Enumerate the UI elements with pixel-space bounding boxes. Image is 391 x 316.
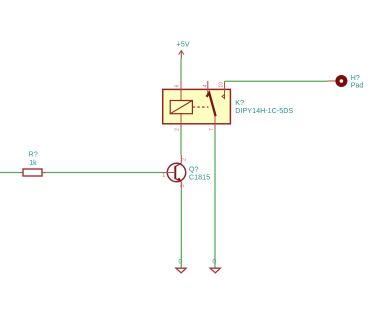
svg-text:0: 0 [212,258,216,265]
svg-text:7: 7 [209,128,215,131]
transistor Q? circle [167,163,185,181]
relay pin 4 [207,81,209,94]
svg-text:10: 10 [218,82,224,88]
wire relay pin2 to transistor collector [180,130,182,155]
relay pin 10 [224,81,226,99]
resistor R1 pin 1 stub [20,172,24,174]
power symbol +5V arrow [179,51,184,55]
wire transistor emitter to ground 1 [180,190,182,268]
relay pin 6 [180,80,182,100]
wire left from edge to resistor [0,172,20,174]
svg-text:0: 0 [178,258,182,265]
transistor emitter diagonal [176,179,182,182]
pad H? pin stub [328,80,337,82]
resistor R1 pin 2 stub [42,172,46,174]
wire relay pin7 to ground 2 [214,130,216,268]
relay pin 7 [214,116,216,130]
svg-text:2: 2 [181,158,187,161]
relay K? body [163,89,231,123]
wire relay pin10 to pad H? [225,80,328,82]
svg-text:1: 1 [162,173,165,179]
resistor R? body [23,169,42,176]
pad H? donut [338,77,346,85]
transistor base pin [163,172,175,174]
ground 1 symbol [176,268,186,273]
svg-text:Pad: Pad [351,83,364,90]
relay pin 2 [180,114,182,130]
relay armature contact [207,93,216,116]
wire resistor to transistor base [46,172,163,174]
transistor collector pin [180,155,182,163]
transistor base bar [174,166,176,179]
svg-text:+5V: +5V [177,39,190,48]
svg-text:C1815: C1815 [189,172,210,181]
svg-text:2: 2 [175,128,181,131]
transistor emitter arrowhead [177,177,181,181]
transistor collector diagonal [176,163,182,166]
svg-text:H?: H? [351,75,360,82]
relay coil box [170,101,192,114]
svg-text:3: 3 [180,184,186,187]
svg-text:4: 4 [203,84,209,87]
relay coil diagonal [170,101,192,114]
svg-text:6: 6 [175,84,181,87]
svg-text:R?: R? [29,149,38,158]
relay coil-contact dashed link [192,106,208,108]
relay NC contact chevron [222,94,225,98]
svg-text:DIPY14H-1C-5DS: DIPY14H-1C-5DS [235,106,293,115]
wire +5V to relay pin 6 [180,59,182,80]
svg-text:1k: 1k [29,158,37,167]
ground 2 symbol [210,268,220,273]
transistor emitter pin [180,182,182,190]
